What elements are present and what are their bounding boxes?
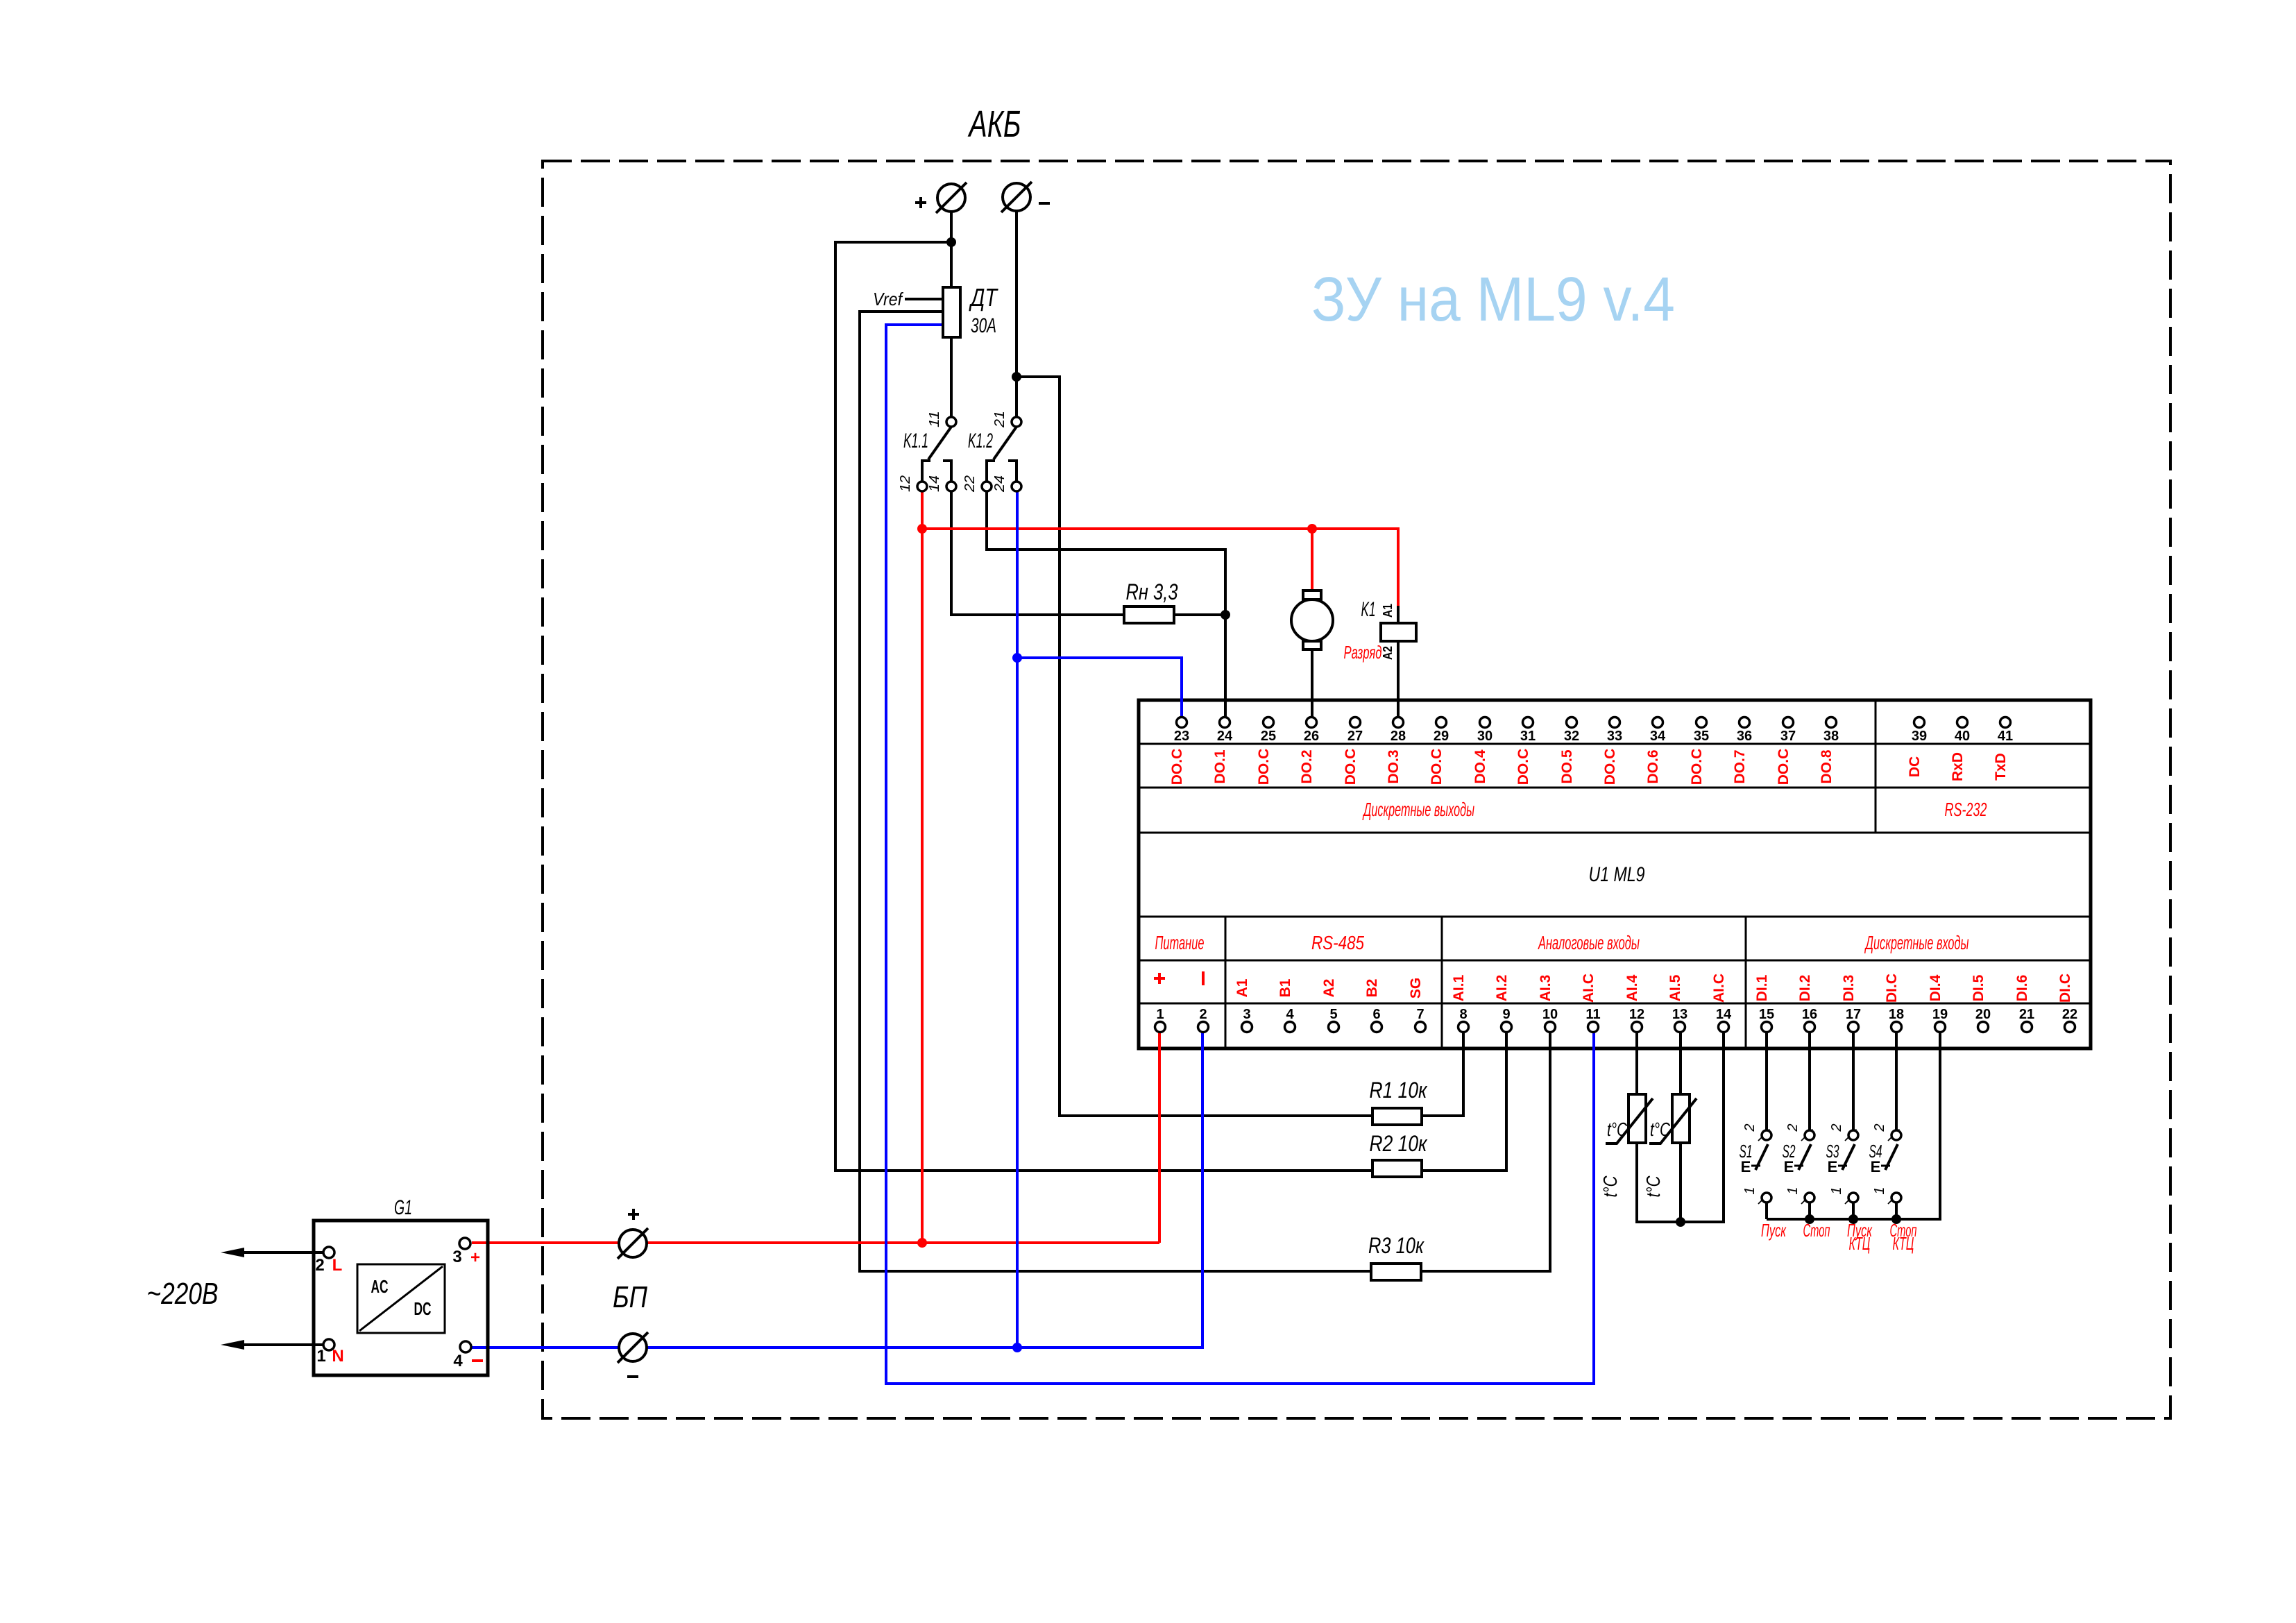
svg-text:35: 35 [1694, 729, 1709, 744]
svg-text:14: 14 [927, 475, 942, 492]
svg-text:1: 1 [1829, 1187, 1844, 1194]
svg-text:24: 24 [1217, 729, 1233, 744]
svg-text:30: 30 [1477, 729, 1493, 744]
svg-text:B1: B1 [1277, 978, 1293, 997]
svg-text:13: 13 [1672, 1007, 1687, 1022]
svg-text:Разряд: Разряд [1344, 642, 1382, 663]
svg-text:1: 1 [1872, 1187, 1887, 1194]
svg-text:2: 2 [1742, 1123, 1758, 1132]
svg-text:40: 40 [1955, 729, 1970, 744]
svg-text:33: 33 [1607, 729, 1622, 744]
svg-text:DO.C: DO.C [1429, 749, 1445, 785]
svg-text:Vref: Vref [873, 289, 903, 309]
svg-text:DO.C: DO.C [1689, 749, 1705, 785]
svg-text:DO.C: DO.C [1602, 749, 1618, 785]
svg-text:12: 12 [898, 475, 913, 492]
svg-text:DO.C: DO.C [1256, 749, 1272, 785]
svg-text:ЗУ на ML9 v.4: ЗУ на ML9 v.4 [1311, 265, 1675, 334]
svg-text:Аналоговые входы: Аналоговые входы [1538, 932, 1640, 953]
svg-text:DO.1: DO.1 [1212, 749, 1228, 783]
svg-text:Питание: Питание [1155, 932, 1205, 953]
svg-text:~220В: ~220В [147, 1277, 219, 1311]
svg-text:DO.6: DO.6 [1645, 749, 1661, 783]
svg-text:B2: B2 [1364, 979, 1380, 998]
svg-text:G1: G1 [394, 1196, 412, 1219]
svg-text:DI.1: DI.1 [1754, 974, 1770, 1001]
svg-text:K1.1: K1.1 [903, 430, 928, 452]
svg-text:2: 2 [315, 1256, 324, 1275]
svg-text:25: 25 [1261, 729, 1276, 744]
svg-text:A2: A2 [1321, 979, 1337, 998]
svg-text:19: 19 [1932, 1007, 1948, 1022]
svg-text:t°C: t°C [1650, 1119, 1671, 1140]
svg-text:DO.C: DO.C [1776, 749, 1792, 785]
svg-text:14: 14 [1716, 1007, 1732, 1022]
svg-text:КТЦ: КТЦ [1849, 1233, 1871, 1254]
svg-text:21: 21 [992, 411, 1007, 428]
svg-text:RS-232: RS-232 [1945, 799, 1987, 820]
svg-text:34: 34 [1650, 729, 1666, 744]
svg-text:30А: 30А [971, 314, 996, 337]
svg-text:17: 17 [1846, 1007, 1861, 1022]
svg-text:DC: DC [1907, 756, 1923, 777]
svg-text:A1: A1 [1381, 604, 1395, 618]
svg-text:S4: S4 [1869, 1141, 1882, 1162]
svg-text:24: 24 [992, 475, 1007, 493]
svg-text:36: 36 [1737, 729, 1752, 744]
svg-text:AI.2: AI.2 [1494, 975, 1510, 1002]
svg-text:АКБ: АКБ [967, 103, 1021, 145]
svg-text:1: 1 [1742, 1187, 1758, 1194]
svg-text:2: 2 [1829, 1123, 1844, 1132]
svg-text:DC: DC [414, 1298, 432, 1319]
svg-text:AI.3: AI.3 [1538, 975, 1554, 1002]
svg-text:+: + [470, 1248, 480, 1267]
svg-text:DO.7: DO.7 [1732, 749, 1748, 783]
svg-text:AI.5: AI.5 [1667, 974, 1683, 1001]
svg-text:RxD: RxD [1950, 752, 1966, 781]
svg-text:4: 4 [1286, 1007, 1294, 1022]
svg-text:t°C: t°C [1607, 1119, 1628, 1140]
svg-text:12: 12 [1629, 1007, 1644, 1022]
svg-text:AI.4: AI.4 [1624, 974, 1640, 1001]
svg-text:22: 22 [2062, 1007, 2077, 1022]
svg-text:21: 21 [2019, 1007, 2034, 1022]
svg-text:A2: A2 [1381, 646, 1395, 660]
svg-text:R2 10к: R2 10к [1370, 1131, 1429, 1156]
svg-text:N: N [332, 1347, 343, 1366]
svg-text:41: 41 [1998, 729, 2013, 744]
svg-text:Дискретные выходы: Дискретные выходы [1362, 799, 1474, 820]
svg-text:S2: S2 [1783, 1141, 1796, 1162]
svg-text:1: 1 [316, 1347, 325, 1366]
svg-text:18: 18 [1889, 1007, 1904, 1022]
svg-text:K1.2: K1.2 [968, 430, 993, 452]
svg-text:4: 4 [453, 1352, 463, 1370]
svg-text:37: 37 [1780, 729, 1796, 744]
svg-text:DO.8: DO.8 [1819, 749, 1835, 783]
svg-text:7: 7 [1416, 1007, 1424, 1022]
svg-text:TxD: TxD [1993, 753, 2009, 781]
svg-text:6: 6 [1372, 1007, 1380, 1022]
svg-text:U1 ML9: U1 ML9 [1589, 863, 1645, 886]
svg-text:15: 15 [1759, 1007, 1774, 1022]
svg-text:DO.C: DO.C [1515, 749, 1531, 785]
svg-text:DO.3: DO.3 [1386, 749, 1402, 783]
svg-text:22: 22 [962, 475, 978, 493]
svg-text:2: 2 [1785, 1123, 1801, 1132]
svg-text:20: 20 [1975, 1007, 1991, 1022]
svg-text:1: 1 [1785, 1187, 1801, 1194]
svg-text:8: 8 [1459, 1007, 1467, 1022]
svg-text:L: L [332, 1256, 343, 1275]
svg-text:28: 28 [1391, 729, 1406, 744]
svg-text:26: 26 [1304, 729, 1319, 744]
svg-text:1: 1 [1156, 1007, 1164, 1022]
svg-text:R1 10к: R1 10к [1370, 1078, 1429, 1103]
svg-text:3: 3 [452, 1248, 461, 1266]
svg-text:t°C: t°C [1599, 1175, 1621, 1198]
svg-text:S1: S1 [1740, 1141, 1753, 1162]
svg-text:38: 38 [1823, 729, 1839, 744]
svg-text:t°C: t°C [1642, 1175, 1664, 1198]
svg-text:32: 32 [1564, 729, 1579, 744]
svg-text:Пуск: Пуск [1761, 1220, 1787, 1241]
svg-text:3: 3 [1243, 1007, 1250, 1022]
svg-text:39: 39 [1912, 729, 1927, 744]
svg-text:DI.5: DI.5 [1971, 974, 1987, 1001]
svg-text:DO.4: DO.4 [1472, 749, 1488, 783]
svg-text:11: 11 [927, 411, 942, 427]
svg-text:DO.C: DO.C [1169, 749, 1185, 785]
svg-text:9: 9 [1502, 1007, 1510, 1022]
svg-text:БП: БП [613, 1280, 647, 1314]
svg-text:5: 5 [1329, 1007, 1337, 1022]
svg-text:AI.C: AI.C [1711, 974, 1727, 1003]
svg-text:29: 29 [1434, 729, 1449, 744]
svg-text:27: 27 [1347, 729, 1363, 744]
svg-text:10: 10 [1542, 1007, 1558, 1022]
svg-text:DI.C: DI.C [1884, 974, 1900, 1003]
svg-text:DI.C: DI.C [2057, 974, 2073, 1003]
svg-text:КТЦ: КТЦ [1893, 1233, 1914, 1254]
svg-text:2: 2 [1872, 1123, 1887, 1132]
svg-text:Rн 3,3: Rн 3,3 [1126, 579, 1178, 604]
svg-text:S3: S3 [1826, 1141, 1839, 1162]
svg-text:Стоп: Стоп [1803, 1220, 1830, 1241]
svg-text:DO.C: DO.C [1343, 749, 1359, 785]
svg-text:31: 31 [1520, 729, 1536, 744]
svg-text:DO.2: DO.2 [1299, 749, 1315, 783]
svg-text:Дискретные входы: Дискретные входы [1864, 932, 1969, 953]
svg-text:AI.C: AI.C [1581, 974, 1597, 1003]
svg-text:AI.1: AI.1 [1451, 974, 1467, 1001]
svg-text:DI.2: DI.2 [1797, 975, 1813, 1002]
svg-text:SG: SG [1408, 978, 1424, 999]
svg-text:DI.6: DI.6 [2014, 975, 2030, 1002]
svg-text:R3 10к: R3 10к [1368, 1233, 1425, 1258]
svg-text:2: 2 [1199, 1007, 1207, 1022]
svg-text:K1: K1 [1361, 598, 1376, 621]
svg-text:23: 23 [1174, 729, 1189, 744]
svg-text:DI.4: DI.4 [1928, 974, 1944, 1001]
svg-text:A1: A1 [1234, 978, 1250, 997]
svg-text:ДТ: ДТ [969, 283, 999, 312]
svg-text:DO.5: DO.5 [1559, 749, 1575, 783]
svg-text:AC: AC [371, 1276, 389, 1297]
svg-text:11: 11 [1585, 1007, 1600, 1022]
svg-text:RS-485: RS-485 [1311, 932, 1364, 953]
svg-text:16: 16 [1802, 1007, 1817, 1022]
svg-text:DI.3: DI.3 [1841, 975, 1857, 1002]
